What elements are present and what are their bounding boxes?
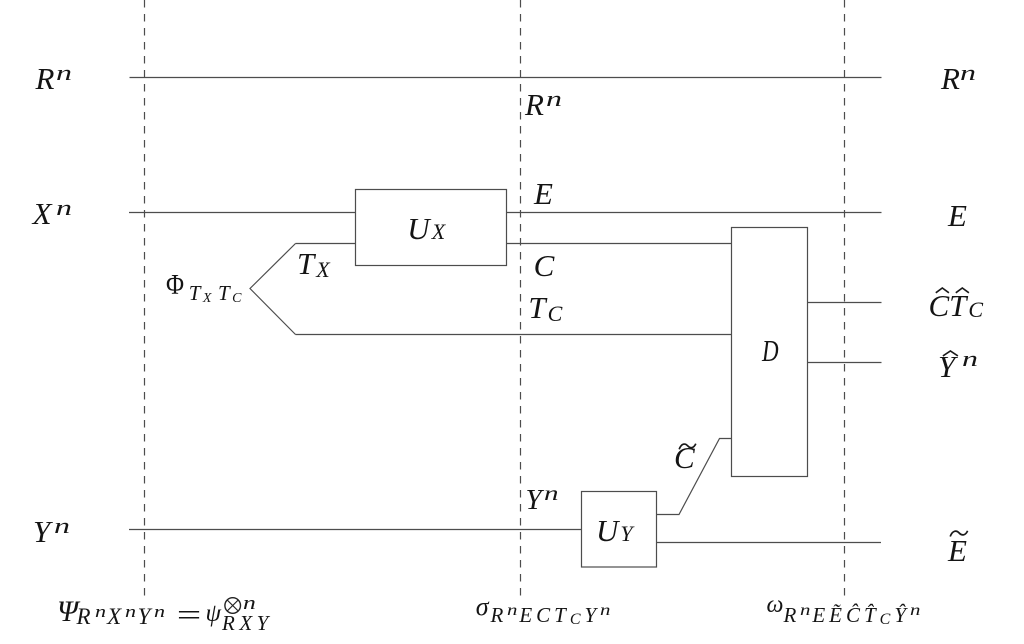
label E tilde right [948, 535, 967, 566]
bottom formula sigma [476, 594, 489, 620]
chevron of entangled state Phi [250, 244, 296, 335]
dashed boundary line 1 (input stage) [144, 0, 146, 598]
wire Y^n [129, 529, 582, 531]
label Phi_TxTc [166, 268, 244, 300]
bottom formula sigma subscript [491, 605, 613, 626]
box D decoder [732, 228, 808, 477]
bottom formula superscript n after otimes [243, 594, 253, 613]
label R^n left [36, 63, 68, 94]
label Y^n left [33, 516, 65, 547]
wire X^n to E [129, 212, 882, 214]
label U_X in box [407, 213, 445, 244]
label E right [948, 200, 967, 231]
bottom formula Psi subscript R^n X^n Y^n [77, 605, 167, 628]
label T_X [297, 248, 330, 279]
dashed boundary line 3 (output stage) [844, 0, 846, 598]
label E middle [534, 178, 553, 209]
wire E tilde [657, 542, 882, 544]
wire C [506, 243, 732, 245]
bottom formula psi subscript RXY [222, 613, 273, 634]
label R^n middle [525, 89, 557, 120]
bottom formula omega [767, 593, 784, 617]
wire T_C [296, 334, 732, 336]
bottom formula Psi main [57, 597, 78, 627]
wire C tilde (bent) [657, 439, 732, 515]
label Y-hat^n right [938, 351, 973, 382]
bottom formula psi [206, 601, 222, 626]
label C tilde [674, 442, 695, 473]
wire R^n [130, 77, 882, 79]
box U_Y encoder [582, 492, 657, 568]
label D in box [762, 335, 784, 366]
dashed boundary line 2 (middle stage) [520, 0, 522, 598]
label X^n left [33, 198, 67, 229]
label Y^n middle [526, 486, 554, 515]
label T_C middle [528, 292, 562, 323]
bottom formula omega subscript [784, 605, 923, 626]
label C middle [534, 250, 555, 281]
label U_Y in box [596, 515, 633, 546]
wire Y-hat^n output [807, 362, 882, 364]
bottom formula otimes [224, 597, 242, 615]
wire T_X [296, 243, 356, 245]
bottom formula equals sign [174, 599, 195, 630]
box U_X encoder [356, 190, 507, 266]
label C-hat T-hat_C right [929, 290, 984, 321]
wire C-hat T-hat_C output [807, 302, 882, 304]
label R^n right [941, 63, 971, 94]
